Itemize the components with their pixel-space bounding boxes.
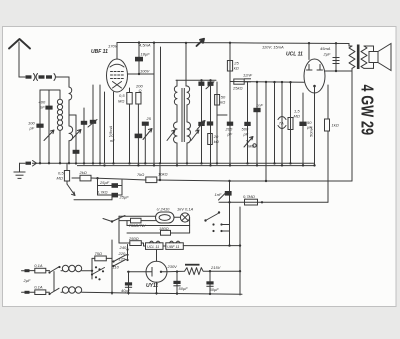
tube UBF11 bbox=[91, 49, 128, 92]
svg-text:215V: 215V bbox=[210, 265, 221, 270]
wire bbox=[69, 115, 76, 163]
wire bbox=[239, 207, 241, 295]
resistor R7 1,5MOhm bbox=[288, 82, 300, 163]
resistor R5 25kOhm bbox=[227, 43, 239, 166]
svg-text:25: 25 bbox=[146, 116, 152, 121]
wire bbox=[99, 85, 101, 163]
wire bbox=[39, 90, 41, 163]
capacitor C21 50uF bbox=[206, 271, 219, 294]
HT rail bbox=[117, 43, 349, 44]
coupler on bus bbox=[20, 161, 37, 167]
capacitor C18 1nF with switch bbox=[215, 180, 232, 246]
wire bbox=[112, 240, 128, 294]
svg-text:45mA: 45mA bbox=[320, 46, 331, 51]
svg-text:7A: 7A bbox=[279, 120, 284, 125]
svg-text:pF: pF bbox=[29, 126, 35, 131]
svg-text:7kΩ: 7kΩ bbox=[137, 172, 144, 177]
capacitor C14 500pF bbox=[242, 122, 251, 137]
IF transformer T1 bbox=[174, 80, 191, 165]
svg-text:MΩ: MΩ bbox=[57, 176, 63, 181]
wire bbox=[308, 43, 310, 59]
trimmer arrow bbox=[143, 129, 152, 140]
capacitor C10 with switch bbox=[206, 82, 214, 166]
resistor R4 50kOhm bbox=[215, 82, 227, 163]
svg-text:kΩ: kΩ bbox=[220, 100, 225, 105]
mains choke L4 bbox=[61, 287, 242, 295]
trimmer arrow bbox=[191, 130, 199, 141]
capacitor C4 bbox=[81, 121, 87, 125]
speaker return wire B bbox=[219, 68, 352, 202]
switch S1 bbox=[204, 211, 229, 232]
resistor R1 0,5MOhm bbox=[118, 88, 132, 163]
svg-text:1kΩ: 1kΩ bbox=[332, 123, 339, 128]
svg-text:1kV 0,1A: 1kV 0,1A bbox=[177, 207, 194, 212]
capacitor C8 25pF bbox=[142, 116, 152, 126]
svg-text:10kΩ: 10kΩ bbox=[158, 172, 168, 177]
svg-text:kΩ: kΩ bbox=[214, 139, 219, 144]
svg-text:12nF: 12nF bbox=[243, 73, 253, 78]
grid wire bbox=[230, 81, 304, 84]
svg-text:4,5mA: 4,5mA bbox=[139, 42, 151, 47]
capacitor C9 bbox=[198, 82, 204, 164]
capacitor C3 bbox=[73, 150, 80, 154]
wire bbox=[160, 47, 162, 163]
svg-text:50µF: 50µF bbox=[179, 286, 189, 291]
tuning coil L2 bbox=[69, 87, 73, 163]
svg-text:MΩ: MΩ bbox=[118, 99, 124, 104]
wire bbox=[40, 90, 60, 99]
svg-text:240: 240 bbox=[119, 245, 127, 250]
wire bbox=[274, 82, 276, 163]
resistor R6 bbox=[232, 79, 244, 91]
wire bbox=[127, 218, 190, 234]
svg-text:110V; 15mA: 110V; 15mA bbox=[262, 45, 284, 50]
selector contacts bbox=[91, 258, 105, 280]
coupling jack J1 bbox=[19, 74, 69, 81]
svg-text:MΩ: MΩ bbox=[294, 114, 300, 119]
svg-text:pF: pF bbox=[227, 132, 233, 137]
capacitor C13 12nF bbox=[243, 73, 253, 164]
wire 50mA bbox=[309, 93, 315, 166]
svg-text:1nF: 1nF bbox=[215, 192, 222, 197]
wire bbox=[265, 82, 267, 181]
potentiometer arrow bbox=[67, 184, 112, 200]
resistor R15 250Ohm bbox=[119, 236, 146, 246]
svg-text:pF: pF bbox=[39, 105, 45, 110]
svg-text:100V: 100V bbox=[140, 69, 150, 74]
output transformer T2 bbox=[349, 44, 367, 70]
resistor R11 1kOhm bbox=[325, 85, 339, 131]
capacitor C17 2uF bbox=[320, 43, 340, 71]
svg-text:nF: nF bbox=[110, 138, 115, 143]
wire bbox=[83, 108, 85, 163]
svg-text:UCL 11: UCL 11 bbox=[147, 245, 159, 249]
svg-text:1,7kΩ: 1,7kΩ bbox=[97, 190, 108, 195]
svg-text:MΩ: MΩ bbox=[248, 144, 254, 149]
capacitor C1 100pF bbox=[28, 121, 44, 131]
capacitor C19 40uF bbox=[121, 271, 132, 295]
svg-text:U 2410: U 2410 bbox=[157, 207, 171, 212]
capacitor C7 20nF bbox=[108, 133, 142, 166]
heater wire bbox=[183, 244, 240, 246]
bottom bus dots bbox=[111, 292, 211, 296]
wire bbox=[68, 77, 70, 87]
capacitor C15 1nF bbox=[253, 82, 263, 166]
wire bbox=[153, 43, 155, 166]
antenna bbox=[9, 39, 30, 77]
resistor R10 7kOhm bbox=[137, 172, 168, 183]
svg-text:230V: 230V bbox=[167, 264, 178, 269]
pilot lamp bbox=[174, 207, 194, 223]
svg-text:75Ω: 75Ω bbox=[95, 251, 103, 256]
ground bus bbox=[32, 163, 315, 165]
svg-text:UBF 11: UBF 11 bbox=[167, 245, 179, 249]
resistor R3 20kOhm bbox=[207, 121, 219, 144]
wire bbox=[53, 272, 55, 292]
capacitor C12 200pF bbox=[225, 122, 234, 137]
svg-text:18µF: 18µF bbox=[141, 52, 151, 57]
wire bbox=[92, 85, 94, 163]
heater box UCL11 bbox=[146, 241, 164, 249]
rectifier tube UY11 bbox=[146, 261, 177, 289]
switch arrow bbox=[197, 39, 205, 46]
scale lamp U2410 bbox=[156, 207, 175, 224]
antenna coil L1 bbox=[57, 99, 62, 163]
svg-text:pF: pF bbox=[243, 132, 249, 137]
wire bbox=[104, 92, 106, 163]
anode wire bbox=[176, 79, 216, 81]
capacitor C2 400pF bbox=[39, 100, 53, 110]
svg-text:UBF 11: UBF 11 bbox=[91, 49, 108, 55]
capacitor C20 50uF bbox=[173, 270, 188, 294]
choke 7A bbox=[278, 82, 286, 166]
junction dots on rail bbox=[138, 41, 337, 83]
svg-text:Ω: Ω bbox=[139, 88, 142, 93]
trimmer arrow bbox=[167, 130, 175, 141]
svg-text:kΩ: kΩ bbox=[234, 66, 239, 71]
svg-text:UCL 11: UCL 11 bbox=[286, 52, 303, 58]
wire 5mA bbox=[108, 92, 114, 163]
resistor R8 0,5MOhm bbox=[57, 163, 70, 184]
svg-text:0,1A: 0,1A bbox=[34, 284, 43, 289]
potentiometer 5MOhm bbox=[244, 137, 256, 149]
electrolytic block 25uF 1,7kOhm bbox=[96, 177, 129, 200]
resistor R12 0,7MOhm bbox=[243, 194, 263, 205]
resistor R16 75Ohm bbox=[92, 251, 112, 261]
selector switch arms bbox=[112, 248, 128, 267]
resistor R2 200Ohm bbox=[135, 84, 143, 134]
capacitor C11 bbox=[197, 121, 205, 130]
voltage selector labels bbox=[113, 251, 126, 270]
svg-text:50mA: 50mA bbox=[309, 126, 314, 137]
anode wire bbox=[325, 70, 352, 72]
tube UCL11 bbox=[262, 45, 325, 94]
capacitor C16 bbox=[299, 93, 312, 166]
trimmer arrow bbox=[44, 130, 54, 141]
svg-text:0,5: 0,5 bbox=[119, 93, 125, 98]
wire bbox=[128, 249, 157, 294]
mains input L bbox=[22, 263, 61, 274]
wire bbox=[116, 43, 118, 60]
svg-text:250Ω: 250Ω bbox=[128, 236, 139, 241]
wire bbox=[185, 43, 187, 86]
svg-text:1nF: 1nF bbox=[256, 103, 263, 108]
resistor R9 2kOhm bbox=[72, 170, 146, 181]
heater box UBF11 bbox=[163, 241, 183, 249]
mains choke L3 bbox=[61, 265, 93, 272]
mains input N bbox=[22, 284, 60, 295]
ground bbox=[14, 163, 26, 178]
capacitor C6 18uF bbox=[135, 43, 150, 74]
svg-text:0,1A: 0,1A bbox=[34, 263, 43, 268]
wire bbox=[144, 126, 146, 163]
svg-text:2kΩ: 2kΩ bbox=[79, 170, 87, 175]
resistor R13 750Ohm bbox=[119, 218, 156, 228]
junction dots on bus bbox=[39, 162, 316, 167]
resistor R14 180Ohm bbox=[127, 226, 190, 235]
svg-text:2µF: 2µF bbox=[23, 278, 32, 283]
feedback wire A bbox=[157, 166, 352, 183]
wire bbox=[119, 216, 127, 243]
svg-text:25kΩ: 25kΩ bbox=[232, 86, 243, 91]
wire bbox=[48, 90, 50, 163]
svg-text:25µF: 25µF bbox=[99, 180, 110, 185]
svg-text:4 GW 29: 4 GW 29 bbox=[357, 85, 377, 136]
speaker bbox=[364, 44, 391, 71]
trimmer arrow bbox=[71, 130, 81, 141]
capacitor C5 with switch bbox=[88, 120, 97, 128]
svg-text:170V: 170V bbox=[108, 43, 118, 48]
svg-text:2µF: 2µF bbox=[323, 52, 332, 57]
svg-text:50µF: 50µF bbox=[210, 287, 220, 292]
svg-text:0,7MΩ: 0,7MΩ bbox=[243, 194, 255, 199]
ballast resistor bbox=[167, 264, 240, 275]
wire 100V bbox=[128, 69, 154, 75]
dial lamp block top wire bbox=[103, 216, 156, 223]
